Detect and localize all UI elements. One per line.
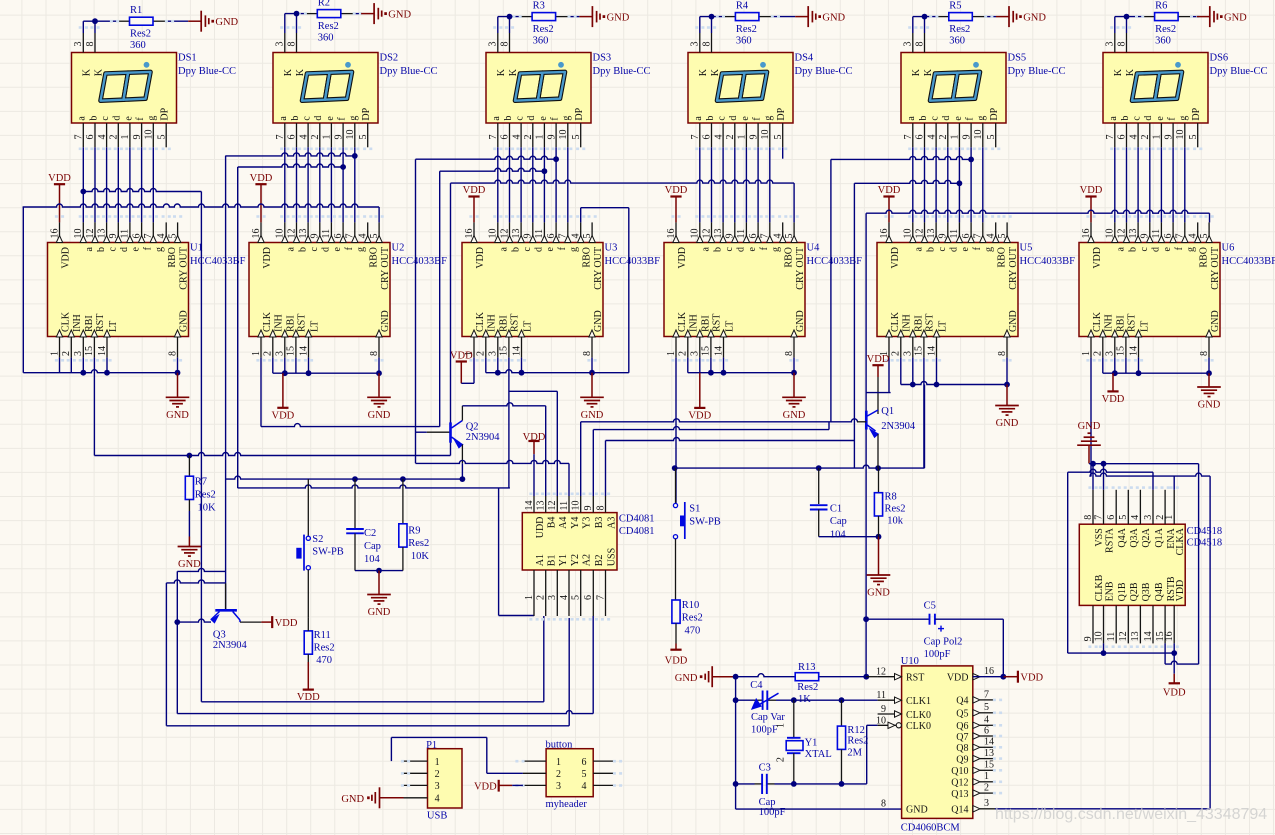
svg-text:CRY OUT: CRY OUT <box>178 247 189 290</box>
svg-text:5: 5 <box>1118 515 1129 520</box>
wire CLK2 to carry <box>261 171 440 426</box>
svg-text:16: 16 <box>1081 229 1092 239</box>
label myheader <box>546 739 588 810</box>
svg-text:e: e <box>953 116 964 121</box>
svg-text:INH: INH <box>689 314 700 332</box>
svg-text:15: 15 <box>914 346 925 356</box>
svg-text:6: 6 <box>984 725 989 736</box>
svg-text:CD4081: CD4081 <box>619 514 655 525</box>
svg-text:XTAL: XTAL <box>805 749 832 760</box>
svg-text:Res2: Res2 <box>408 538 429 549</box>
wire CLK5 link <box>866 392 891 394</box>
svg-text:14: 14 <box>1143 631 1154 641</box>
svg-text:c: c <box>522 246 533 251</box>
svg-text:5: 5 <box>571 595 582 600</box>
wire C2 bottom <box>355 533 403 573</box>
svg-text:a: a <box>499 246 510 251</box>
resistor R13 <box>795 662 819 705</box>
svg-text:3: 3 <box>488 351 499 356</box>
power VDD (Q3) <box>261 616 297 629</box>
wire U4 bottom gnd rail <box>688 358 797 376</box>
svg-text:5: 5 <box>582 234 593 239</box>
svg-text:e: e <box>1155 116 1166 121</box>
svg-text:C4: C4 <box>750 680 763 691</box>
svg-text:8: 8 <box>701 42 712 47</box>
capacitor C3 <box>759 763 786 818</box>
svg-text:d: d <box>321 247 332 252</box>
svg-text:Res2: Res2 <box>195 490 216 501</box>
svg-text:CD4518: CD4518 <box>1187 538 1223 549</box>
label DS4 <box>795 53 853 78</box>
power VDD (R11) <box>297 662 320 703</box>
svg-text:b: b <box>1127 247 1138 252</box>
svg-text:5: 5 <box>358 135 369 140</box>
svg-text:K: K <box>82 68 93 76</box>
svg-text:Q2: Q2 <box>466 421 479 432</box>
svg-text:VDD: VDD <box>272 410 295 421</box>
svg-text:R9: R9 <box>408 525 420 536</box>
svg-text:Dpy Blue-CC: Dpy Blue-CC <box>795 66 853 77</box>
svg-text:8: 8 <box>286 42 297 47</box>
svg-text:4: 4 <box>1128 135 1139 140</box>
svg-text:9: 9 <box>108 234 119 239</box>
svg-text:10: 10 <box>275 229 286 239</box>
svg-text:CRY OUT: CRY OUT <box>1210 247 1221 290</box>
svg-text:VDD: VDD <box>297 692 320 703</box>
svg-text:myheader: myheader <box>546 799 588 810</box>
svg-text:b: b <box>1120 116 1131 121</box>
svg-text:12: 12 <box>1116 229 1127 239</box>
ground GND (R4) <box>795 6 845 27</box>
counter U3 HCC4033BF <box>462 222 604 361</box>
svg-text:a: a <box>77 116 88 121</box>
wire R9 top <box>402 479 404 524</box>
svg-text:10: 10 <box>903 229 914 239</box>
svg-text:16: 16 <box>464 229 475 239</box>
svg-text:VDD: VDD <box>688 410 711 421</box>
counter U6 HCC4033BF <box>1079 222 1221 361</box>
wire RST3 chain <box>509 358 557 496</box>
svg-text:GND: GND <box>996 418 1019 429</box>
svg-text:8: 8 <box>582 351 593 356</box>
svg-text:GND: GND <box>388 10 411 21</box>
svg-text:RBI: RBI <box>1116 315 1127 332</box>
label U5 <box>1020 243 1076 268</box>
svg-text:VDD: VDD <box>60 247 71 269</box>
svg-text:DS3: DS3 <box>593 53 612 64</box>
svg-text:14: 14 <box>713 346 724 356</box>
svg-text:e: e <box>131 246 142 251</box>
svg-text:7: 7 <box>74 135 85 140</box>
svg-text:c: c <box>724 246 735 251</box>
svg-text:8: 8 <box>784 351 795 356</box>
svg-text:3: 3 <box>903 42 914 47</box>
svg-text:Q14: Q14 <box>951 805 968 816</box>
svg-text:3: 3 <box>690 351 701 356</box>
svg-text:Q13: Q13 <box>951 789 968 800</box>
svg-text:VDD: VDD <box>947 673 969 684</box>
wire CD4518 rail P <box>1068 469 1153 653</box>
wire U3 bottom gnd rail <box>486 208 629 376</box>
svg-text:15: 15 <box>84 346 95 356</box>
svg-text:104: 104 <box>364 554 381 565</box>
svg-text:Res2: Res2 <box>318 21 339 32</box>
svg-text:8: 8 <box>85 42 96 47</box>
svg-text:Y2: Y2 <box>570 554 581 566</box>
ground GND (R1) <box>188 11 238 32</box>
power VDD (U2 RBI) <box>272 373 295 421</box>
svg-text:3: 3 <box>275 351 286 356</box>
svg-text:DS1: DS1 <box>178 53 197 64</box>
wire R5 to display pins <box>913 14 996 33</box>
counter U4 HCC4033BF <box>664 222 806 361</box>
svg-text:DS2: DS2 <box>380 53 399 64</box>
svg-text:2: 2 <box>938 135 949 140</box>
resistor R8 <box>874 491 905 536</box>
svg-text:7: 7 <box>760 234 771 239</box>
svg-text:RBO: RBO <box>582 247 593 268</box>
svg-text:12: 12 <box>701 229 712 239</box>
svg-text:Q1A: Q1A <box>1154 527 1165 547</box>
svg-text:GND: GND <box>368 607 391 618</box>
svg-text:HCC4033BF: HCC4033BF <box>392 256 448 267</box>
svg-text:USS: USS <box>606 548 617 566</box>
wires DS5 to U5 <box>884 26 1011 222</box>
svg-text:13: 13 <box>1130 631 1141 641</box>
svg-text:13: 13 <box>298 229 309 239</box>
display DS2 Dpy Blue-CC <box>273 33 378 147</box>
svg-text:3: 3 <box>488 42 499 47</box>
wire header bus a <box>201 616 543 702</box>
svg-text:6: 6 <box>546 234 557 239</box>
svg-text:Res2: Res2 <box>847 736 868 747</box>
svg-text:CLKB: CLKB <box>1094 574 1105 601</box>
wire RST1 down <box>93 358 95 456</box>
svg-text:g: g <box>569 247 580 252</box>
wire U10 gnd <box>736 784 902 809</box>
svg-text:14: 14 <box>524 501 535 511</box>
svg-text:4: 4 <box>1130 515 1141 520</box>
svg-text:INH: INH <box>1104 314 1115 332</box>
svg-text:VDD: VDD <box>1080 185 1103 196</box>
svg-text:e: e <box>325 116 336 121</box>
svg-text:GND: GND <box>1078 421 1101 432</box>
svg-text:a: a <box>84 246 95 251</box>
resistor R2 <box>317 0 341 43</box>
svg-text:LT: LT <box>937 321 948 332</box>
display DS4 Dpy Blue-CC <box>688 33 793 147</box>
svg-text:7: 7 <box>143 234 154 239</box>
svg-text:R8: R8 <box>885 491 897 502</box>
ground GND (U2) <box>367 373 391 421</box>
svg-text:9: 9 <box>132 135 143 140</box>
svg-text:Res2: Res2 <box>1155 24 1176 35</box>
wire RSTB link <box>1165 643 1199 664</box>
svg-text:16: 16 <box>251 229 262 239</box>
svg-text:VDD: VDD <box>1175 580 1186 602</box>
svg-text:1: 1 <box>524 595 535 600</box>
svg-text:A3: A3 <box>606 517 617 529</box>
svg-text:LT: LT <box>1139 321 1150 332</box>
ground GND (R8) <box>867 537 891 599</box>
wire Y3 to Q1 base <box>581 419 858 496</box>
svg-text:K: K <box>911 68 922 76</box>
svg-text:K: K <box>295 68 306 76</box>
svg-text:R4: R4 <box>736 0 749 11</box>
svg-text:button: button <box>546 739 574 750</box>
svg-text:15: 15 <box>499 346 510 356</box>
svg-text:15: 15 <box>286 346 297 356</box>
svg-text:GND: GND <box>1008 310 1019 332</box>
svg-text:8: 8 <box>595 506 606 511</box>
svg-text:e: e <box>740 116 751 121</box>
svg-text:R1: R1 <box>130 5 142 16</box>
svg-text:RST: RST <box>1127 314 1138 332</box>
svg-text:14: 14 <box>1128 346 1139 356</box>
label Y1 <box>805 737 832 760</box>
wire DP4 stub <box>782 147 784 158</box>
wire R6 to display pins <box>1115 14 1199 33</box>
wire header bus b <box>177 616 593 714</box>
svg-text:INH: INH <box>72 314 83 332</box>
wire CLK4 to S1 <box>675 358 677 506</box>
svg-text:GND: GND <box>593 310 604 332</box>
svg-text:g: g <box>763 116 774 121</box>
svg-text:U5: U5 <box>1020 243 1033 254</box>
AND gate U7 CD4081 <box>522 493 617 621</box>
svg-text:Y4: Y4 <box>570 517 581 529</box>
svg-text:C3: C3 <box>759 763 771 774</box>
svg-text:GND: GND <box>178 559 201 570</box>
svg-text:e: e <box>538 116 549 121</box>
svg-text:https://blog.csdn.net/weixin_4: https://blog.csdn.net/weixin_43348794 <box>995 806 1267 823</box>
svg-text:DP: DP <box>574 107 585 120</box>
wire header bus c <box>166 618 569 726</box>
svg-text:VDD: VDD <box>275 618 298 629</box>
svg-text:e: e <box>960 246 971 251</box>
power VDD (U2 pin16) <box>250 173 273 223</box>
svg-text:1: 1 <box>322 135 333 140</box>
svg-text:A2: A2 <box>582 554 593 566</box>
svg-text:Cap Pol2: Cap Pol2 <box>924 636 963 647</box>
wire U6 bottom gnd rail <box>1103 358 1212 377</box>
wire carry bus to e3 <box>440 168 548 174</box>
svg-text:4: 4 <box>713 135 724 140</box>
label CD4081 <box>619 514 655 537</box>
svg-text:10: 10 <box>571 501 582 511</box>
svg-text:8: 8 <box>914 42 925 47</box>
svg-text:5: 5 <box>784 234 795 239</box>
svg-text:10: 10 <box>558 130 569 140</box>
svg-text:LT: LT <box>309 321 320 332</box>
svg-text:Res2: Res2 <box>533 24 554 35</box>
svg-text:U10: U10 <box>901 656 919 667</box>
svg-text:360: 360 <box>533 35 549 46</box>
svg-text:9: 9 <box>725 234 736 239</box>
svg-text:CRY OUT: CRY OUT <box>380 247 391 290</box>
svg-text:2: 2 <box>109 135 120 140</box>
wires DS2 to U2 <box>256 26 383 222</box>
svg-text:R11: R11 <box>314 630 331 641</box>
svg-text:a: a <box>278 116 289 121</box>
svg-text:USB: USB <box>427 810 447 821</box>
svg-text:6: 6 <box>748 234 759 239</box>
wire CD4518 bottom rail <box>1068 643 1177 656</box>
svg-text:Q8: Q8 <box>956 743 968 754</box>
wire S2 top <box>307 479 309 536</box>
svg-text:Res2: Res2 <box>682 613 703 624</box>
display DS3 Dpy Blue-CC <box>486 33 591 147</box>
svg-text:RST: RST <box>712 314 723 332</box>
svg-text:GND: GND <box>867 588 890 599</box>
wire U10 VDD <box>973 674 1006 680</box>
svg-text:15: 15 <box>1116 346 1127 356</box>
wire node a1 to lower-left bus <box>80 189 201 702</box>
svg-text:2N3904: 2N3904 <box>213 640 248 651</box>
svg-text:RBI: RBI <box>84 315 95 332</box>
label U4 <box>807 243 863 268</box>
power VDD (Q1) <box>867 354 890 377</box>
wire C1 bottom <box>819 510 882 540</box>
svg-text:11: 11 <box>949 229 960 239</box>
svg-text:U4: U4 <box>807 243 821 254</box>
svg-text:7: 7 <box>1093 515 1104 520</box>
svg-text:d: d <box>1151 247 1162 252</box>
svg-text:DS5: DS5 <box>1008 53 1027 64</box>
svg-text:c: c <box>930 116 941 121</box>
svg-text:360: 360 <box>318 32 334 43</box>
svg-text:Q3A: Q3A <box>1129 527 1140 547</box>
svg-text:10: 10 <box>1105 229 1116 239</box>
svg-text:100pF: 100pF <box>751 725 778 736</box>
svg-text:UDD: UDD <box>535 517 546 539</box>
svg-text:U2: U2 <box>392 243 405 254</box>
svg-text:Dpy Blue-CC: Dpy Blue-CC <box>1210 66 1268 77</box>
svg-text:3: 3 <box>73 351 84 356</box>
label DS6 <box>1210 53 1268 78</box>
svg-text:Q1B: Q1B <box>1117 582 1128 601</box>
svg-text:2: 2 <box>891 351 902 356</box>
label Q3 <box>213 630 248 652</box>
wire R8 top <box>878 468 880 493</box>
svg-text:6: 6 <box>582 757 587 768</box>
svg-text:5: 5 <box>1199 234 1210 239</box>
svg-text:16: 16 <box>666 229 677 239</box>
capacitor C4 Cap Var <box>750 680 785 736</box>
wire CLK1 row <box>733 677 878 703</box>
svg-text:10K: 10K <box>198 503 217 514</box>
svg-text:2M: 2M <box>847 747 862 758</box>
svg-text:4: 4 <box>773 234 784 239</box>
wire R3 to display pins <box>498 14 580 33</box>
svg-text:1K: 1K <box>798 694 811 705</box>
svg-text:1: 1 <box>984 771 989 782</box>
svg-text:5: 5 <box>997 234 1008 239</box>
ground GND (U4) <box>782 373 806 421</box>
svg-text:6: 6 <box>1117 135 1128 140</box>
svg-text:3: 3 <box>1143 515 1154 520</box>
wire CRY OUT U2 to CLK U1 <box>23 204 380 222</box>
svg-text:7: 7 <box>1105 135 1116 140</box>
svg-text:1: 1 <box>535 135 546 140</box>
svg-text:a: a <box>491 116 502 121</box>
svg-text:GND: GND <box>215 17 238 28</box>
svg-text:K: K <box>1113 68 1124 76</box>
svg-text:9: 9 <box>310 234 321 239</box>
svg-text:RST: RST <box>925 314 936 332</box>
svg-text:5: 5 <box>167 234 178 239</box>
resistor R5 <box>949 0 973 46</box>
wire S1 rail <box>672 385 925 472</box>
svg-text:9: 9 <box>333 135 344 140</box>
svg-text:VDD: VDD <box>450 350 473 361</box>
svg-text:1: 1 <box>1152 135 1163 140</box>
svg-text:C1: C1 <box>830 503 842 514</box>
svg-text:4: 4 <box>571 234 582 239</box>
svg-text:R3: R3 <box>533 0 545 11</box>
svg-text:4: 4 <box>298 135 309 140</box>
svg-text:a: a <box>914 246 925 251</box>
svg-text:3: 3 <box>435 781 440 792</box>
svg-text:CLK: CLK <box>262 311 273 332</box>
svg-text:DP: DP <box>989 107 1000 120</box>
svg-text:a: a <box>693 116 704 121</box>
wire RBO3 tie <box>581 208 629 223</box>
wire S1 top <box>675 468 677 503</box>
svg-text:5: 5 <box>986 135 997 140</box>
svg-text:INH: INH <box>902 314 913 332</box>
label DS5 <box>1008 53 1066 78</box>
svg-text:VDD: VDD <box>677 247 688 269</box>
svg-text:RBI: RBI <box>914 315 925 332</box>
svg-text:5: 5 <box>156 135 167 140</box>
svg-text:9: 9 <box>546 135 557 140</box>
wire S2 bottom <box>307 570 309 617</box>
svg-text:Q3B: Q3B <box>1141 582 1152 601</box>
svg-text:2: 2 <box>476 351 487 356</box>
svg-text:Q2B: Q2B <box>1129 582 1140 601</box>
power VDD (U10) <box>1003 671 1043 684</box>
svg-text:10: 10 <box>345 130 356 140</box>
svg-text:11: 11 <box>1106 632 1117 642</box>
resistor R4 <box>735 0 759 46</box>
svg-text:Q1: Q1 <box>881 406 894 417</box>
svg-text:8: 8 <box>997 351 1008 356</box>
svg-text:100pF: 100pF <box>924 649 951 660</box>
svg-text:HCC4033BF: HCC4033BF <box>1020 256 1076 267</box>
svg-text:K: K <box>283 68 294 76</box>
svg-text:7: 7 <box>488 135 499 140</box>
ground GND (R5) <box>996 6 1046 27</box>
svg-text:K: K <box>698 68 709 76</box>
svg-text:6: 6 <box>287 135 298 140</box>
svg-text:11: 11 <box>736 229 747 239</box>
svg-text:3: 3 <box>1105 42 1116 47</box>
svg-text:GND: GND <box>581 410 604 421</box>
svg-text:B2: B2 <box>594 555 605 567</box>
svg-text:12: 12 <box>914 229 925 239</box>
wire A3 rail <box>606 438 855 496</box>
svg-text:1: 1 <box>1081 351 1092 356</box>
svg-text:6: 6 <box>500 135 511 140</box>
wires DS1 to U1 <box>55 26 182 222</box>
svg-text:g: g <box>984 247 995 252</box>
svg-text:ENB: ENB <box>1104 581 1115 601</box>
svg-text:104: 104 <box>830 530 847 541</box>
svg-text:16: 16 <box>49 229 60 239</box>
oscillator U10 CD4060BCM <box>876 666 1002 819</box>
svg-text:K: K <box>710 68 721 76</box>
